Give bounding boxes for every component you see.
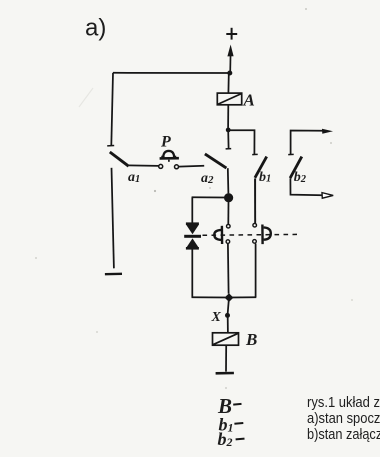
left branch terminator bar [105,168,122,274]
svg-text:a2: a2 [201,171,214,186]
list dash B [233,403,241,406]
b2 top arrow wire [291,129,333,155]
svg-text:rys.1 układ z: rys.1 układ z [307,395,380,411]
svg-text:B: B [245,330,257,349]
svg-text:a)stan spocz: a)stan spocz [307,411,380,427]
list dash b1 [234,422,243,425]
svg-text:A: A [243,91,255,110]
wire relay A to node [227,105,229,128]
supply arrow [227,45,233,74]
wire node K to diac branch [192,196,225,198]
wire reed contact 1 to node X [227,244,230,294]
reed contact 1 armature [214,226,222,244]
reed contact 2 lower terminal [253,240,257,244]
reed contact 1 lower terminal [226,240,230,244]
b2 bottom arrow wire [290,178,333,198]
node X [225,313,230,318]
list dash b2 [236,438,245,441]
wire a1 to P contact [129,164,159,167]
terminal tick a2 [226,148,232,150]
terminal tick b2 [288,153,294,155]
reed contact 2 upper terminal [253,223,257,227]
contact circle P right [175,165,179,169]
contact b2 blade [290,157,302,179]
wire bottom right branch [229,296,257,298]
contact b1 blade [255,157,267,178]
diac D1 [184,222,201,249]
terminal tick b1 [252,153,258,155]
wire top rail [113,72,230,74]
wire left rail [111,73,113,146]
reed contact 2 armature [262,225,270,245]
relay coil B [213,333,239,345]
mechanical link dashed line [203,233,298,236]
wire diac branch upper [191,197,193,223]
wire node K to reed contact 1 [227,202,229,224]
node below relay A [226,127,231,132]
wire a2 to node K [227,168,230,193]
svg-text:b)stan załącz: b)stan załącz [307,427,380,443]
wire reed contact 2 lower [255,244,257,298]
reed contact 1 upper terminal [227,224,231,228]
wire P to a2 [179,165,205,168]
terminal tick a1 [107,145,114,147]
wire junction to X [228,301,229,313]
node K junction dot [224,193,233,202]
svg-text:X: X [211,310,222,325]
relay coil A [217,93,241,105]
wire b1 reed contact 2 [254,178,256,223]
wire b1 to reed contact [254,179,256,223]
wire node to contact b1 [228,130,254,154]
ground bar [216,372,234,375]
contact a2 blade [205,154,227,168]
svg-text:a): a) [85,15,106,42]
contact circle P left [159,164,163,168]
pushbutton P actuator [160,151,179,162]
wire bus node to a2 [227,130,229,148]
node bottom junction [225,293,234,302]
svg-text:P: P [160,134,171,151]
contact a1 blade [110,152,129,166]
supply + terminal [226,28,237,40]
wire bottom left branch [192,296,229,298]
wire bus to relay A [227,73,229,93]
wire X to relay B [227,318,229,333]
node junction below arrow [227,71,232,76]
wire relay B to ground [225,345,227,371]
wire diac branch lower [191,249,193,297]
